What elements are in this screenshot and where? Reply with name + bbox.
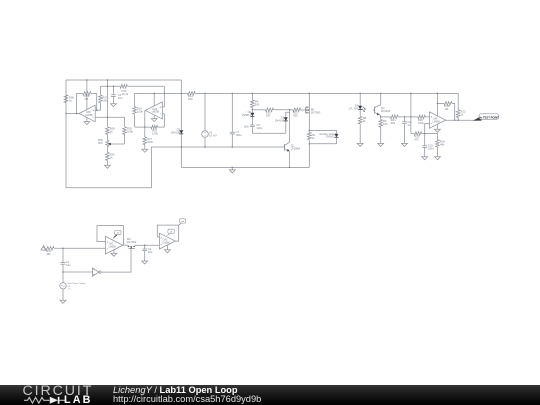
node Q2 emitter <box>380 116 382 118</box>
diode D6 schottky <box>334 134 338 138</box>
wire U2 fb right upper <box>163 93 165 107</box>
svg-text:R23: R23 <box>414 134 419 138</box>
svg-text:500: 500 <box>255 102 260 106</box>
flag net out <box>178 219 185 226</box>
ground LED <box>357 143 363 146</box>
wire minus drop x124 <box>124 117 126 127</box>
wire C7 lower lead <box>231 134 233 147</box>
node divider tap <box>107 116 109 118</box>
svg-text:V2: V2 <box>209 130 213 134</box>
wire U2 rect left lower <box>134 114 136 127</box>
wire U1 feedback left <box>76 93 78 113</box>
node C7 top <box>232 93 234 95</box>
node box bottom <box>309 143 311 145</box>
wire fb bottom b <box>422 133 438 135</box>
wire C9 to gnd <box>404 124 406 143</box>
wire fb vertical x410 <box>410 93 412 133</box>
svg-text:100k: 100k <box>152 131 158 135</box>
wire C1 lower lead <box>62 264 64 272</box>
resistor R12 <box>456 110 460 118</box>
diode D3 <box>284 117 288 121</box>
svg-text:160: 160 <box>383 122 388 126</box>
wire R07 lower lead <box>99 103 101 111</box>
label R01 <box>46 249 51 256</box>
svg-text:R14: R14 <box>188 94 193 98</box>
svg-text:46k: 46k <box>46 252 51 256</box>
logo resistor zigzag <box>24 397 50 403</box>
label C1 <box>66 260 71 267</box>
resistor R17 <box>143 137 147 145</box>
wire Q1 emitter <box>289 152 291 168</box>
node rect2 top-right <box>164 93 166 95</box>
ground bottom rail <box>229 170 235 173</box>
wire U2 + stub <box>162 106 164 108</box>
svg-text:46k: 46k <box>440 142 445 146</box>
wire U2 rect bottom a <box>135 126 151 128</box>
wire sample bus <box>135 244 160 246</box>
svg-text:C4: C4 <box>118 93 122 97</box>
label R22 <box>418 118 424 125</box>
wire R9 upper lead <box>380 117 382 120</box>
ground U5 <box>165 250 171 253</box>
wire Q1 collector <box>289 110 291 142</box>
flag net clk1 <box>112 230 121 239</box>
node rail309 top <box>309 93 311 95</box>
svg-text:R9: R9 <box>383 119 387 123</box>
node U1 plus junction <box>96 109 98 111</box>
label R03 <box>127 127 133 134</box>
op-amp U1 OA5 <box>79 105 95 122</box>
wire R9 to gnd <box>380 127 382 143</box>
svg-text:500: 500 <box>98 141 103 145</box>
resistor R16 <box>133 107 137 115</box>
svg-text:D4: D4 <box>355 104 359 108</box>
wire U2 rect top <box>135 92 165 94</box>
LED D4 <box>358 106 362 110</box>
node fb minus <box>424 133 426 135</box>
capacitor C9 <box>402 122 407 124</box>
label R13 <box>122 89 129 96</box>
svg-text:M3: M3 <box>127 237 131 241</box>
label R19 <box>152 128 158 135</box>
wire U3 V+ supply <box>436 93 438 116</box>
svg-text:LM358: LM358 <box>432 120 440 123</box>
wire U1 feedback top b <box>91 92 97 94</box>
wire main rail b <box>195 92 458 94</box>
svg-text:100k: 100k <box>127 130 133 134</box>
label R21 <box>391 118 396 125</box>
transistor M3 2N7000 <box>128 245 135 248</box>
wire bottom outer loop <box>66 147 151 188</box>
svg-text:100u: 100u <box>236 133 242 137</box>
svg-text:100k: 100k <box>102 98 108 102</box>
svg-text:100k: 100k <box>137 109 143 113</box>
resistor R22 <box>418 115 426 119</box>
svg-text:C10: C10 <box>428 144 433 148</box>
node Q2 collector tap <box>380 93 382 95</box>
wire main rail a <box>164 92 187 94</box>
label C10 <box>428 144 434 151</box>
svg-text:47k: 47k <box>414 137 419 141</box>
wire rail309 lower <box>308 140 310 168</box>
wire D2 upper lead <box>251 110 253 113</box>
ground U4 <box>111 253 117 256</box>
node V2 bottom <box>204 146 206 148</box>
voltage source V2 <box>202 131 209 138</box>
label R9 <box>383 119 388 126</box>
wire box bottom <box>309 137 336 144</box>
wire M1 gate <box>301 109 306 111</box>
svg-text:1N5817: 1N5817 <box>242 113 252 117</box>
svg-text:R19: R19 <box>152 128 157 132</box>
wire pot wiper <box>111 143 125 145</box>
wire C10 to gnd <box>424 147 426 156</box>
node C7 bottom <box>232 146 234 148</box>
label R23 <box>414 134 419 141</box>
wire C2 upper lead <box>144 245 146 249</box>
ground U3 <box>435 129 441 132</box>
wire R25 lead a <box>437 102 444 104</box>
wire U2 fb right lower <box>164 114 166 127</box>
wire C10 lead <box>424 134 426 146</box>
wire Q2 emitter <box>380 115 382 117</box>
node C2 tap <box>144 244 146 246</box>
wire rail x107 to R08 <box>106 117 108 127</box>
wire U1 V+ supply <box>86 80 88 109</box>
node U2 out junction <box>144 126 146 128</box>
wire emitter bus b <box>398 116 418 118</box>
resistor R11 <box>293 108 301 112</box>
wire fb up to minus <box>424 123 426 133</box>
svg-text:R20: R20 <box>110 152 115 156</box>
source V3 sine <box>60 283 66 289</box>
ground U2 <box>151 119 157 122</box>
wire to U3 plus <box>425 116 429 118</box>
svg-text:C7: C7 <box>236 130 240 134</box>
resistor R25 <box>444 102 452 106</box>
wire R8 to gnd <box>359 124 361 143</box>
node inverter tap <box>62 271 64 273</box>
wire inverter output <box>101 249 131 273</box>
wire base bus y147 <box>151 146 284 148</box>
wire U3 minus stub <box>425 122 430 124</box>
wire rail181 upper <box>180 80 182 130</box>
node U1 fb-out junction <box>76 113 78 115</box>
wire R25 to output <box>452 103 455 120</box>
label R20 <box>110 152 115 159</box>
label D2 <box>242 110 252 117</box>
svg-text:D5: D5 <box>177 128 181 132</box>
ground U1 <box>84 122 90 125</box>
svg-text:C2: C2 <box>148 247 152 251</box>
node out1 junction <box>65 113 67 115</box>
label R08 <box>110 127 115 134</box>
svg-text:R24: R24 <box>440 139 445 143</box>
capacitor C10 <box>422 146 427 148</box>
label D5 <box>171 128 181 135</box>
flag net hold <box>166 229 174 236</box>
label D3 <box>275 116 285 123</box>
wire LED upper lead <box>359 93 361 105</box>
wire y86 bus a <box>100 85 120 87</box>
label C2 <box>148 247 153 254</box>
svg-text:LM358: LM358 <box>162 241 170 244</box>
node fb top <box>410 116 412 118</box>
resistor R24 <box>436 140 440 148</box>
wire bias c <box>290 109 293 111</box>
ground C4 <box>111 104 117 107</box>
label R11 <box>293 111 298 118</box>
label R07 <box>102 95 108 102</box>
wire U2 output drop <box>144 110 146 127</box>
label R05 <box>84 94 89 101</box>
label R8 <box>363 116 367 123</box>
wire fb bottom a <box>411 133 414 135</box>
wire rail309 upper <box>308 93 310 132</box>
svg-text:10u: 10u <box>148 250 153 254</box>
node V2 top <box>204 93 206 95</box>
wire M3 gate <box>130 247 132 249</box>
svg-text:V3: V3 <box>68 286 71 288</box>
wire bottom rail y167 <box>181 166 309 168</box>
wire D3 top jog <box>286 112 290 117</box>
inverter X1 <box>92 268 101 276</box>
wire gnd stem <box>231 167 233 170</box>
label R17 <box>147 137 153 144</box>
label R10 <box>266 111 271 118</box>
resistor R14 <box>187 92 195 96</box>
wire R24 upper lead <box>437 134 439 140</box>
wire U4 V- stem <box>113 250 115 254</box>
wire source upper lead <box>62 272 64 283</box>
op-amp U4 OA1 <box>106 236 123 254</box>
node Q1 emitter <box>289 167 291 169</box>
wire output bus <box>446 119 479 121</box>
node U3 supply tap <box>437 93 439 95</box>
node input tap <box>62 248 64 250</box>
svg-text:300: 300 <box>266 114 271 118</box>
potentiometer R09 <box>106 134 111 152</box>
svg-text:LM358: LM358 <box>108 246 116 249</box>
svg-text:1N4148: 1N4148 <box>275 119 285 123</box>
label M3 <box>127 237 137 244</box>
svg-text:1N4148: 1N4148 <box>171 131 181 135</box>
svg-text:R17: R17 <box>147 137 152 141</box>
node rail107 top <box>107 79 109 81</box>
resistor R08 <box>106 127 110 135</box>
svg-text:R5: R5 <box>312 133 316 137</box>
wire y86 drop <box>163 86 165 93</box>
svg-text:R4: R4 <box>255 99 259 103</box>
wire R07 upper lead <box>99 86 101 95</box>
logo diode <box>50 396 58 403</box>
svg-text:C1: C1 <box>66 260 70 264</box>
ground C9 <box>402 143 408 146</box>
svg-text:Q2: Q2 <box>381 106 385 110</box>
CircuitLab logo <box>23 383 94 399</box>
ground C2 <box>142 261 148 264</box>
node U1 supply tap <box>86 79 88 81</box>
diode D5 <box>179 130 183 134</box>
ground R01 input <box>41 246 46 251</box>
wire bias b <box>274 109 290 111</box>
resistor R13 <box>120 85 127 89</box>
resistor R23 <box>414 132 422 136</box>
svg-text:R12: R12 <box>461 110 466 114</box>
node gnd tap <box>232 167 234 169</box>
svg-text:R25: R25 <box>444 104 449 108</box>
wire D2 to C8 <box>251 116 253 125</box>
wire U2 rect left upper <box>134 93 136 106</box>
label C4 <box>118 93 123 100</box>
wire U1 output to left rail <box>66 113 79 115</box>
wire C4 to gnd <box>112 96 114 103</box>
wire R17 to gnd <box>144 145 146 150</box>
svg-text:100u: 100u <box>428 147 434 151</box>
svg-text:R16: R16 <box>137 106 142 110</box>
resistor R07 <box>99 95 103 103</box>
ground R17 <box>142 149 148 152</box>
wire R17 upper lead <box>144 127 146 137</box>
svg-text:LM358: LM358 <box>152 111 160 114</box>
wire U1 + input stub <box>95 109 100 111</box>
wire U4 feedback rect <box>97 226 124 246</box>
svg-text:30k: 30k <box>391 121 396 125</box>
wire inverter input <box>63 271 92 273</box>
resistor R03 <box>123 127 127 135</box>
wire U1 - input bus <box>95 116 124 118</box>
svg-text:R13: R13 <box>122 89 127 93</box>
label C9 <box>407 120 411 127</box>
node C4 tap <box>113 86 115 88</box>
label D4 <box>349 104 359 111</box>
label R5 <box>312 133 316 140</box>
node C9 tap <box>404 116 406 118</box>
svg-text:LTL-307: LTL-307 <box>349 107 359 111</box>
capacitor C1 <box>61 263 66 265</box>
label V2 <box>209 130 217 137</box>
label C8 <box>256 123 262 130</box>
capacitor C2 <box>142 249 147 251</box>
wire box top <box>309 130 336 133</box>
svg-text:D2: D2 <box>248 110 252 114</box>
node R25 tap <box>437 103 439 105</box>
ground V3 <box>60 300 66 303</box>
wire source to gnd <box>62 289 64 300</box>
capacitor C7 <box>230 132 235 134</box>
label R12 <box>461 110 466 117</box>
wire rail x107 upper <box>106 80 108 117</box>
wire U3 V- stem <box>436 124 438 129</box>
wire bias a <box>252 109 265 111</box>
label R24 <box>440 139 445 146</box>
resistor R4 <box>251 100 255 108</box>
wire V2 lower lead <box>204 137 206 147</box>
wire R4 to node <box>251 108 253 110</box>
resistor R8 <box>358 116 362 124</box>
wire C9 lead <box>404 117 406 122</box>
footer bar <box>0 385 540 405</box>
diode D2 <box>250 113 254 117</box>
node rail181 base <box>181 146 183 148</box>
wire C1 upper lead <box>62 248 64 262</box>
svg-text:1u: 1u <box>407 123 410 127</box>
svg-text:10u: 10u <box>118 96 123 100</box>
svg-text:100: 100 <box>188 97 193 101</box>
wire R20 to gnd <box>106 160 108 165</box>
wire U5 V- stem <box>166 245 168 250</box>
wire wiper up <box>124 134 126 144</box>
ground R24 <box>435 157 441 160</box>
label V3 <box>68 282 86 290</box>
wire U2 - stub <box>162 113 164 115</box>
node rail tap y86 <box>107 86 109 88</box>
svg-text:1N5817: 1N5817 <box>326 136 335 139</box>
svg-text:R22: R22 <box>418 118 423 122</box>
node U2 supply tap <box>153 93 155 95</box>
label Q1 <box>291 144 301 151</box>
svg-text:LM358: LM358 <box>85 114 93 117</box>
wire C2 lower lead <box>144 251 146 261</box>
wire loop bottom <box>252 121 285 133</box>
svg-text:R10: R10 <box>266 111 271 115</box>
svg-text:100n: 100n <box>244 126 250 129</box>
wire C4 lead <box>112 86 114 95</box>
svg-text:Vo TEST POINT: Vo TEST POINT <box>479 116 499 120</box>
node box top <box>309 130 311 132</box>
svg-text:500: 500 <box>293 114 298 118</box>
svg-text:R03: R03 <box>127 127 132 131</box>
svg-text:R11: R11 <box>293 111 298 115</box>
svg-text:R21: R21 <box>391 118 396 122</box>
wire R12 lower lead <box>457 118 459 121</box>
node fb rail tap <box>410 93 412 95</box>
wire top rail +V <box>66 79 181 81</box>
svg-text:30.1k: 30.1k <box>122 92 129 96</box>
svg-text:2N4403: 2N4403 <box>381 109 391 113</box>
wire left rail (op-amp U1 output loop) <box>65 80 67 188</box>
svg-text:10u: 10u <box>66 263 71 267</box>
wire C8 lower lead <box>251 127 253 134</box>
resistor R19 feedback <box>151 125 158 129</box>
svg-text:R07: R07 <box>102 95 107 99</box>
label R25 <box>444 104 449 111</box>
svg-text:100u: 100u <box>256 126 262 130</box>
transistor Q1 2N3904 <box>285 142 290 152</box>
svg-text:2N7000: 2N7000 <box>311 110 321 114</box>
svg-text:1 V: 1 V <box>68 289 72 291</box>
wire V2 upper lead <box>204 93 206 130</box>
label R4 <box>255 99 260 106</box>
svg-text:Q1: Q1 <box>291 144 295 148</box>
label R16 <box>137 106 143 113</box>
svg-text:R08: R08 <box>110 127 115 131</box>
resistor R10 <box>265 108 273 112</box>
resistor R21 <box>390 115 398 119</box>
wire U2 rect bottom b <box>158 126 165 128</box>
svg-text:100k: 100k <box>147 140 153 144</box>
node R12 out <box>457 119 459 121</box>
capacitor C4 <box>111 95 116 97</box>
transistor M1 2N7000 <box>305 106 309 113</box>
svg-text:100k: 100k <box>418 121 424 125</box>
capacitor C8 <box>250 125 255 127</box>
svg-text:R09: R09 <box>98 138 103 142</box>
transistor Q2 2N4403 <box>373 106 381 115</box>
node bias <box>252 109 254 111</box>
wire rail181 lower <box>180 134 182 168</box>
node R4 top <box>252 93 254 95</box>
